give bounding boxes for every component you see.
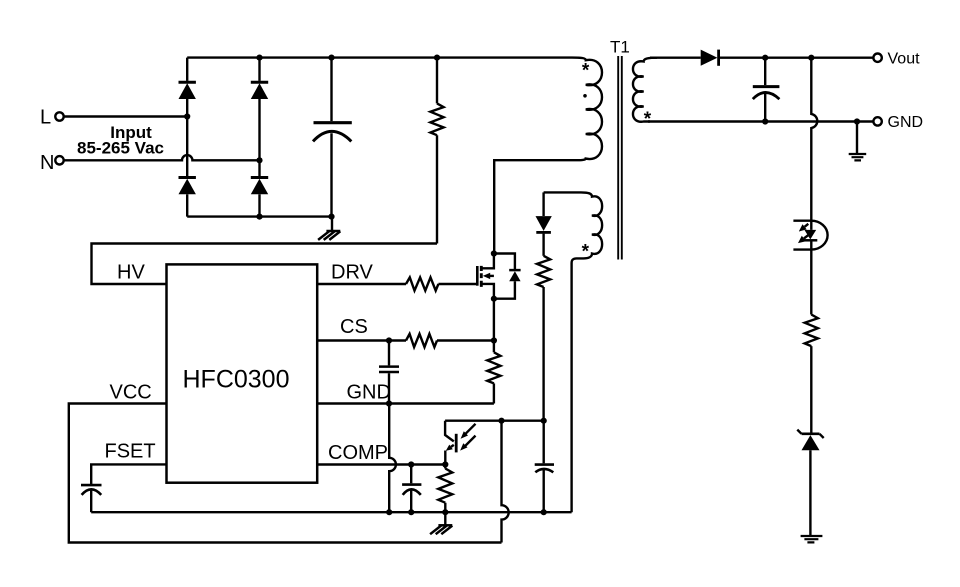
diode D6 aux rectifier <box>536 192 552 255</box>
capacitor C4 COMP <box>402 465 421 513</box>
terminal N <box>55 156 63 164</box>
wire bottom rail <box>187 215 331 217</box>
node drain <box>491 250 497 256</box>
svg-text:VCC: VCC <box>110 382 152 404</box>
opto-LED U2A <box>793 221 827 250</box>
node N / bridge <box>256 157 262 163</box>
node L / bridge <box>184 113 190 119</box>
opto-transistor U2B <box>445 421 475 465</box>
svg-text:HFC0300: HFC0300 <box>183 366 290 394</box>
wire HV net <box>92 244 438 285</box>
ground chassis G1 <box>318 217 340 240</box>
wire COMP pin <box>317 463 445 465</box>
node bottom rail / right column <box>256 214 262 220</box>
wire opto collector rail <box>445 420 544 422</box>
node bottom rail / C5 <box>762 118 768 124</box>
resistor R7 divider <box>805 240 818 432</box>
svg-text:*: * <box>582 242 590 263</box>
svg-text:GND: GND <box>347 382 391 404</box>
terminal L <box>55 112 63 120</box>
transformer T1 primary winding <box>494 58 602 254</box>
diode D3 bridge bottom-left <box>179 178 196 196</box>
wire FSET pin <box>91 464 166 484</box>
svg-text:FSET: FSET <box>105 441 156 463</box>
capacitor C6 VCC <box>535 421 554 513</box>
transformer T1 secondary winding <box>633 58 657 122</box>
svg-text:N: N <box>40 152 54 174</box>
svg-text:85-265 Vac: 85-265 Vac <box>77 139 164 158</box>
node collector rail / R6 C6 <box>541 418 547 424</box>
wire signal ground net <box>91 511 571 513</box>
terminal Vout <box>873 54 881 62</box>
node COMP / C4 <box>408 461 414 467</box>
wire VCC net <box>69 404 502 543</box>
node ground net / R5 <box>442 509 448 515</box>
node ground net / C6 <box>541 509 547 515</box>
resistor R5 feedback <box>438 465 452 513</box>
wire aux top <box>544 191 581 193</box>
node collector / VCC riser <box>498 418 504 424</box>
svg-text:GND: GND <box>888 114 924 131</box>
svg-text:L: L <box>40 107 51 129</box>
capacitor C3 FSET <box>81 485 102 512</box>
wire top rail <box>187 56 572 58</box>
resistor R4 CS filter <box>317 334 494 347</box>
diode D2 bridge top-right <box>251 82 268 99</box>
diode D5 MOSFET body <box>494 254 521 299</box>
diode D8 zener <box>797 430 823 536</box>
svg-text:Vout: Vout <box>888 51 921 68</box>
ground G3 output <box>849 122 867 161</box>
capacitor C1 bulk <box>313 58 352 217</box>
resistor R2 gate (DRV) <box>317 277 477 290</box>
node Vout rail / C5 <box>762 55 768 61</box>
resistor R1 bleeder <box>430 58 443 244</box>
node COMP / opto emitter <box>442 461 448 467</box>
wire Vout rail <box>720 57 874 59</box>
wire Vout sense branch (hop over bottom rail) <box>811 58 817 230</box>
capacitor C2 CS <box>379 341 399 404</box>
wire VCC riser (hop over ground net) <box>502 421 509 543</box>
node Vout rail / divider <box>808 55 814 61</box>
wire bridge right column <box>258 58 260 217</box>
ground G4 zener <box>801 536 823 542</box>
transformer T1 aux winding <box>572 192 603 512</box>
svg-text:*: * <box>582 60 590 81</box>
svg-text:HV: HV <box>117 262 145 284</box>
node bottom rail / bulk cap <box>328 214 334 220</box>
node ground net / vertical <box>386 509 392 515</box>
svg-text:T1: T1 <box>610 38 630 57</box>
node CS cap <box>386 337 392 343</box>
resistor R3 sense <box>487 341 500 404</box>
terminal GND <box>873 117 881 125</box>
ground chassis G2 <box>430 512 452 534</box>
node top rail / bleeder <box>434 55 440 61</box>
node top rail / bulk cap <box>328 55 334 61</box>
resistor R6 VCC charge <box>537 256 550 421</box>
svg-text:*: * <box>644 109 652 130</box>
node CS / source <box>491 337 497 343</box>
diode D4 bridge bottom-right <box>251 178 268 196</box>
node top rail / right column <box>256 55 262 61</box>
svg-text:COMP: COMP <box>328 442 388 464</box>
svg-text:DRV: DRV <box>331 262 374 284</box>
node GND / cap <box>386 400 392 406</box>
svg-text:CS: CS <box>340 316 368 338</box>
wire L to bridge <box>64 115 187 117</box>
wire GND pin <box>317 402 494 404</box>
wire bridge left column <box>186 58 188 217</box>
polarity dot primary <box>583 94 587 98</box>
transformer T1 core <box>618 56 622 260</box>
node bottom rail / ground <box>854 118 860 124</box>
node ground net / C4 <box>408 509 414 515</box>
transistor Q1 MOSFET <box>477 254 494 341</box>
wire GND-to-ground vertical (hop over COMP) <box>389 404 396 513</box>
diode D7 output rectifier <box>701 50 719 66</box>
wire secondary bottom rail <box>648 120 873 122</box>
IC U1 HFC0300 <box>167 264 318 482</box>
node source <box>491 296 497 302</box>
wire secondary top to diode <box>650 57 701 59</box>
wire N to bridge (hop over left column) <box>64 155 260 160</box>
capacitor C5 output <box>753 58 780 122</box>
diode D1 bridge top-left <box>179 82 196 99</box>
